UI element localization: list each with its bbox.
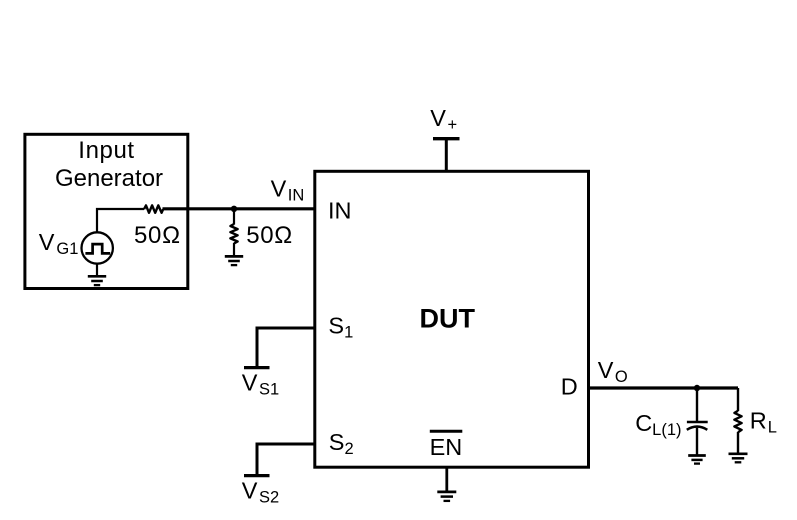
- wire RL to ground: [737, 432, 739, 454]
- ground under shunt resistor: [225, 256, 243, 265]
- wire V+ to DUT: [445, 139, 448, 172]
- resistor RL: [734, 411, 741, 432]
- VS1 terminal bar: [244, 366, 270, 369]
- input generator box: [25, 134, 188, 288]
- ground under VG1: [88, 276, 106, 285]
- svg-text:D: D: [561, 374, 578, 400]
- wire VG1 to ground: [96, 264, 98, 276]
- wire node to RL: [737, 388, 739, 411]
- svg-text:Input: Input: [78, 137, 134, 164]
- svg-text:Generator: Generator: [55, 165, 163, 192]
- wire resistor to DUT IN: [163, 207, 315, 210]
- pin label EN with overline: [430, 431, 463, 460]
- wire node to shunt resistor: [233, 210, 235, 225]
- resistor 50 ohm series: [144, 205, 163, 212]
- node VIN junction dot: [231, 206, 237, 212]
- wire capacitor to ground: [696, 428, 698, 455]
- wire VG1 to resistor: [97, 209, 144, 232]
- svg-text:IN: IN: [328, 198, 352, 224]
- resistor 50 ohm shunt: [230, 224, 237, 244]
- wire D output: [590, 386, 738, 389]
- DUT box: [315, 171, 589, 467]
- svg-text:DUT: DUT: [420, 303, 476, 333]
- wire node to capacitor: [696, 388, 698, 421]
- svg-text:50Ω: 50Ω: [134, 222, 181, 249]
- wire S2 to VS2 terminal: [257, 444, 314, 474]
- svg-text:EN: EN: [430, 434, 463, 460]
- wire shunt resistor to ground: [233, 243, 235, 256]
- wire EN to ground: [445, 468, 448, 492]
- wire S1 to VS1 terminal: [257, 328, 314, 366]
- node output junction dot: [694, 385, 700, 391]
- ground under EN: [437, 492, 456, 501]
- svg-text:50Ω: 50Ω: [246, 222, 293, 249]
- ground under RL: [729, 454, 748, 463]
- pulse source VG1: [82, 232, 113, 263]
- V+ supply terminal bar: [433, 137, 460, 140]
- capacitor CL1: [687, 422, 708, 430]
- label Input Generator: [55, 137, 163, 192]
- ground under capacitor: [688, 456, 706, 464]
- VS2 terminal bar: [244, 474, 270, 477]
